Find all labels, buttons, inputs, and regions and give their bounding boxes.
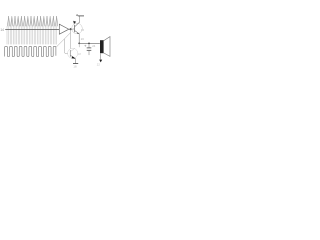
svg-text:24: 24 — [92, 44, 96, 48]
speaker ground arrow — [99, 60, 102, 63]
speaker horn — [104, 37, 110, 57]
wire to Q2 base — [64, 39, 68, 54]
Q2 collector — [70, 48, 75, 51]
Q2 base bar — [69, 50, 71, 57]
Q1 base lead — [72, 28, 74, 30]
op-amp U1 triangle — [59, 24, 69, 34]
array apex vertical fingers upper — [9, 16, 57, 30]
wire output to Q1 base — [71, 28, 73, 30]
svg-text:14: 14 — [0, 28, 4, 32]
svg-text:18: 18 — [78, 52, 81, 56]
Q1 collector to supply — [75, 16, 80, 27]
feedback diagonal wire — [57, 33, 71, 47]
svg-text:22: 22 — [97, 63, 101, 67]
capacitor plate bottom — [87, 49, 92, 51]
Q1 collector arrowhead — [73, 21, 76, 24]
capacitor plate top — [87, 47, 92, 49]
speaker driver rectangle — [100, 40, 104, 53]
Q2 emitter black arrow — [72, 56, 76, 59]
wire output dot down — [70, 29, 72, 49]
plus polarity mark — [84, 45, 86, 47]
Q1 base bar — [74, 25, 76, 32]
svg-text:16: 16 — [81, 28, 85, 32]
junction dot emitter node — [78, 43, 80, 45]
transistor Q2 circle — [68, 48, 78, 58]
array valley vertical fingers upper — [7, 26, 55, 30]
capacitor top lead — [88, 43, 90, 47]
transducer array zigzag top — [7, 16, 57, 26]
array valley vertical fingers lower — [7, 30, 55, 45]
serpentine coil loops — [5, 46, 56, 56]
svg-text:18: 18 — [73, 64, 77, 68]
output junction dot — [70, 28, 72, 30]
Q1 emitter — [75, 30, 80, 34]
coil end stub wire — [55, 45, 58, 48]
ground bar — [73, 63, 78, 65]
wire node to speaker — [79, 42, 100, 44]
svg-text:20: 20 — [81, 37, 85, 41]
wire Q1 emitter down — [78, 34, 80, 44]
capacitor bottom lead — [88, 51, 90, 56]
capacitor junction dot — [88, 43, 90, 45]
array apex vertical fingers lower — [9, 30, 57, 45]
Q1 emitter arrow — [77, 33, 79, 35]
speaker bottom lead — [100, 53, 102, 59]
wire node down stub — [78, 43, 80, 47]
wire emitter to ground — [75, 59, 77, 64]
transistor Q1 circle — [72, 23, 83, 34]
bus bar wire node 14 — [5, 29, 59, 31]
B+ arrow — [76, 14, 78, 16]
battery positive bar — [78, 15, 84, 17]
Q2 emitter — [70, 55, 75, 58]
